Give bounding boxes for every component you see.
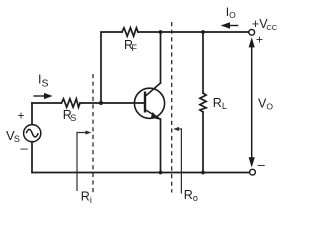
svg-text:RF: RF (124, 38, 138, 53)
node emitter bottom rail (159, 171, 163, 175)
wire RS to base (80, 102, 144, 104)
node RL bottom rail (201, 171, 205, 175)
svg-text:IO: IO (226, 5, 236, 20)
wire collector to top rail (160, 32, 162, 83)
resistor RL (200, 93, 206, 112)
resistor RS (62, 99, 81, 107)
wire base from source (32, 102, 62, 104)
svg-text:+: + (18, 109, 25, 123)
pointer Ro (173, 127, 181, 194)
svg-text:VO: VO (258, 97, 273, 112)
dashed boundary line input (92, 74, 94, 195)
svg-text:VS: VS (6, 128, 20, 144)
wire top right segment (138, 31, 249, 33)
arrow VO both ends (249, 37, 255, 167)
node RL top rail (201, 30, 205, 34)
wire VS bottom lead (31, 142, 33, 173)
svg-text:Ri: Ri (81, 190, 92, 206)
pointer Ri (77, 130, 91, 191)
svg-text:Ro: Ro (184, 188, 198, 203)
wire bottom rail (32, 172, 250, 174)
node base-RF junction (99, 101, 103, 105)
svg-text:RS: RS (63, 108, 76, 123)
svg-text:–: – (21, 141, 29, 156)
wire RL top lead (202, 32, 204, 93)
source VS (24, 125, 41, 142)
svg-text:–: – (258, 157, 266, 172)
resistor RF (122, 28, 138, 36)
node collector top rail (159, 30, 163, 34)
arrow IO (221, 22, 239, 28)
terminal +VCC (249, 29, 255, 35)
wire top left segment (101, 32, 122, 103)
wire emitter to bottom rail (160, 119, 162, 173)
terminal output minus (250, 169, 256, 175)
wire VS top lead (31, 103, 33, 125)
transistor Q1 (134, 83, 164, 120)
svg-text:RL: RL (213, 96, 227, 111)
wire RL bottom lead (202, 112, 204, 173)
dashed boundary line output (171, 22, 173, 193)
svg-text:+: + (256, 33, 263, 47)
svg-text:+VCC: +VCC (252, 17, 278, 32)
svg-text:IS: IS (38, 73, 49, 90)
arrow IS (34, 93, 53, 99)
